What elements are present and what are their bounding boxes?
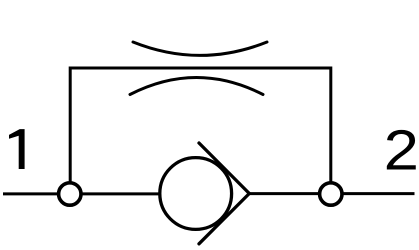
svg-text:2: 2 bbox=[384, 117, 419, 181]
node junction circle right bbox=[320, 183, 342, 205]
throttle restrictor lower arc bbox=[130, 78, 263, 95]
check valve V1 seat upper line bbox=[199, 143, 249, 194]
check valve V1 seat lower line bbox=[199, 194, 249, 244]
wire: check valve outlet to port 2 lead bbox=[249, 192, 414, 195]
port label 1 bbox=[9, 129, 25, 169]
wire: port 1 lead to check valve bbox=[3, 192, 196, 195]
node junction circle left bbox=[59, 183, 81, 205]
wire: bypass loop (left riser, top run, right riser) bbox=[70, 68, 331, 194]
throttle restrictor upper arc bbox=[133, 42, 267, 55]
check valve V1 ball circle bbox=[160, 158, 232, 230]
